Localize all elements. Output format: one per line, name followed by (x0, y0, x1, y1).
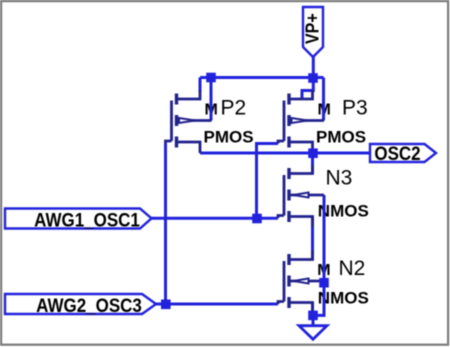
junction node OSC2 (308, 148, 318, 158)
svg-text:PMOS: PMOS (204, 127, 254, 146)
flag AWG1_OSC1 (5, 208, 152, 230)
junction node ground (308, 311, 318, 321)
wire VP+ stem (312, 56, 315, 78)
flag OSC2 (370, 142, 436, 164)
wire N2 bulk to ground node (313, 283, 324, 316)
wire P2 gate drop (164, 144, 167, 305)
transistor N2 (278, 251, 324, 314)
wire P3 gate riser (257, 144, 279, 219)
svg-text:N2: N2 (339, 257, 366, 280)
wire top rail (200, 76, 324, 79)
wire N2 source drop (311, 303, 314, 316)
wire P3 bulk wrap (322, 78, 325, 121)
wire P2 source drop (199, 78, 202, 93)
svg-text:P3: P3 (342, 97, 368, 120)
junction node AWG2 (161, 300, 171, 310)
wire P3 source route (302, 78, 313, 100)
flag AWG2_OSC3 (5, 294, 156, 316)
wire AWG1_OSC1 horizontal (151, 217, 278, 220)
svg-text:AWG1_OSC1: AWG1_OSC1 (34, 208, 140, 230)
svg-text:VP+: VP+ (301, 13, 322, 44)
junction node AWG1 (252, 214, 262, 224)
transistor P3 (278, 90, 324, 153)
flag VP+ (301, 7, 323, 57)
ground symbol (299, 326, 327, 340)
wire P2 bulk drop (210, 78, 213, 121)
junction node rail-VP+ (308, 73, 318, 83)
junction node rail-P2 (206, 73, 216, 83)
svg-text:AWG2_OSC3: AWG2_OSC3 (36, 294, 142, 316)
svg-text:OSC2: OSC2 (374, 142, 420, 164)
svg-text:P2: P2 (221, 97, 247, 120)
wire N3 source to N2 drain (311, 217, 314, 260)
wire N3 drain drop (311, 153, 314, 174)
junction node N2 bulk (319, 278, 329, 288)
transistor P2 (166, 90, 212, 153)
wire N3 bulk down (323, 195, 326, 283)
wire OSC2 node horizontal (200, 152, 371, 155)
transistor N3 (278, 165, 324, 228)
svg-text:N3: N3 (326, 166, 353, 189)
wire ground stem (312, 315, 315, 326)
wire AWG2_OSC3 horizontal (156, 303, 278, 306)
svg-text:PMOS: PMOS (316, 127, 366, 146)
